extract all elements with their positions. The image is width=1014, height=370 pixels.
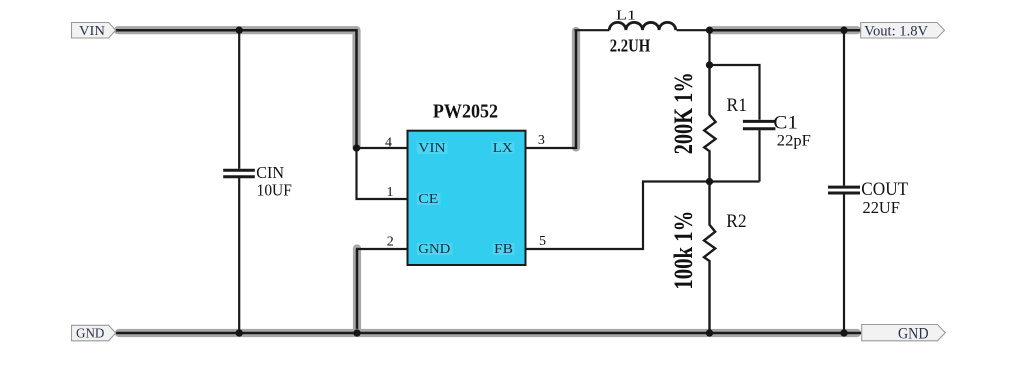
wire riser to inductor	[575, 29, 610, 31]
svg-text:PW2052: PW2052	[433, 101, 498, 123]
wire C1 top link	[710, 65, 760, 120]
wire R1 top lead	[708, 30, 710, 65]
net flag GND bottom-right	[862, 325, 946, 343]
junction R2 bottom	[706, 329, 713, 336]
pin name FB	[493, 241, 515, 256]
wire GND riser bus (pin 2 to bottom rail)	[353, 249, 361, 334]
label COUT 22UF	[861, 179, 908, 217]
label C1 22pF	[773, 112, 810, 149]
svg-text:R2: R2	[726, 211, 746, 232]
label CIN 10UF	[256, 163, 292, 200]
wire LX bus riser	[572, 30, 580, 149]
svg-text:200K 1%: 200K 1%	[669, 72, 698, 154]
wire to pin 2 GND	[356, 248, 408, 250]
junction CIN bottom	[236, 329, 243, 336]
junction FB node	[706, 178, 713, 185]
pin name LX	[492, 140, 515, 155]
net flag GND bottom-left	[72, 325, 116, 341]
junction VIN pin node	[353, 144, 360, 151]
svg-text:CE: CE	[418, 191, 438, 206]
net flag VIN	[72, 23, 116, 39]
svg-text:VIN: VIN	[418, 140, 446, 155]
svg-text:3: 3	[538, 133, 545, 148]
junction COUT top	[840, 27, 847, 34]
svg-text:LX: LX	[493, 140, 513, 155]
junction GND riser bottom	[353, 329, 360, 336]
svg-text:22UF: 22UF	[863, 198, 900, 217]
svg-text:22pF: 22pF	[777, 133, 811, 150]
capacitor C1	[743, 121, 776, 128]
svg-text:4: 4	[385, 136, 392, 151]
net flag Vout 1.8V	[861, 23, 945, 40]
wire CIN top branch	[238, 30, 240, 169]
svg-text:FB: FB	[494, 241, 513, 256]
wire inductor to Vout node	[677, 29, 712, 31]
resistor R1	[704, 65, 715, 182]
svg-text:GND: GND	[76, 326, 105, 341]
svg-text:100k 1%: 100k 1%	[669, 211, 698, 290]
svg-text:2: 2	[387, 235, 394, 250]
IC U1 PW2052 body	[408, 131, 526, 265]
pin name GND	[417, 241, 453, 256]
wire FB link	[526, 182, 760, 250]
svg-text:C1: C1	[773, 112, 798, 133]
svg-text:GND: GND	[418, 241, 450, 256]
wire COUT bottom branch	[843, 195, 845, 334]
wire to pin 1 CE	[357, 148, 409, 199]
wire COUT top branch	[843, 30, 845, 185]
svg-text:VIN: VIN	[79, 23, 105, 38]
svg-text:GND: GND	[898, 326, 929, 343]
svg-text:5: 5	[539, 234, 546, 249]
wire Vout bus (top-right thick)	[710, 26, 861, 34]
wire GND bottom rail bus	[116, 329, 861, 337]
junction L1 output node	[706, 27, 713, 34]
wire C1 bottom lead	[758, 130, 760, 181]
capacitor CIN	[223, 170, 255, 177]
svg-text:R1: R1	[727, 95, 748, 116]
capacitor COUT	[828, 187, 860, 193]
resistor R2	[704, 182, 715, 334]
wire VIN bus (top-left thick)	[116, 30, 357, 148]
wire LX to riser	[526, 147, 577, 149]
svg-text:1: 1	[387, 185, 394, 200]
wire CIN bottom branch	[238, 178, 240, 333]
svg-text:2.2UH: 2.2UH	[610, 36, 651, 56]
junction R1 C1 top	[706, 61, 713, 68]
pin name CE	[417, 191, 441, 206]
svg-text:L1: L1	[616, 8, 636, 23]
svg-text:CIN: CIN	[256, 163, 284, 182]
inductor L1	[609, 22, 675, 30]
svg-text:Vout: 1.8V: Vout: 1.8V	[864, 23, 928, 39]
pin name VIN	[417, 140, 448, 155]
svg-text:10UF: 10UF	[257, 180, 292, 199]
junction CIN top	[236, 27, 243, 34]
wire to pin 4	[357, 147, 409, 149]
junction COUT bottom	[840, 329, 847, 336]
